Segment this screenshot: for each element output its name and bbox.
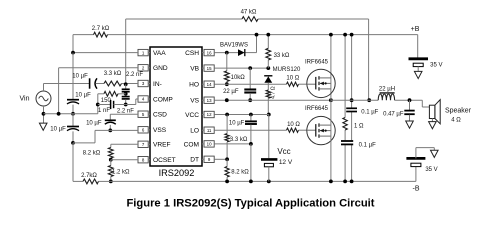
node 10uF/GND bus junction	[71, 112, 75, 116]
node bootstrap on VCC row	[267, 113, 271, 117]
capacitor 10uF VSS decoupling	[72, 114, 74, 126]
node column A on +B rail	[343, 33, 347, 37]
svg-text:2.7 kΩ: 2.7 kΩ	[92, 26, 110, 32]
wire VAA pin1 to left column	[73, 52, 138, 54]
node VCC/10uF junction	[249, 113, 253, 117]
svg-text:22 µH: 22 µH	[379, 87, 395, 93]
node VS orphan junction	[225, 98, 229, 102]
wire GND bus	[44, 94, 98, 114]
caption Figure 1	[126, 198, 374, 210]
wire VB pin15 row	[214, 67, 268, 69]
wire VCC pin12 row	[214, 114, 269, 116]
svg-text:3.3 kΩ: 3.3 kΩ	[230, 137, 248, 143]
svg-text:CSH: CSH	[185, 50, 199, 57]
node GND drop junction	[57, 112, 61, 116]
svg-text:14: 14	[207, 82, 212, 87]
speaker symbol	[429, 100, 440, 124]
node IN- junction	[124, 82, 128, 86]
node OCSET junction	[109, 158, 113, 162]
svg-text:Speaker: Speaker	[445, 108, 472, 115]
svg-text:10 Ω: 10 Ω	[286, 76, 299, 82]
svg-text:VS: VS	[190, 98, 199, 105]
node output	[408, 98, 412, 102]
resistor 10 Ohm low-side gate	[287, 128, 308, 132]
wire 10uF bottom to VSS rail	[72, 131, 74, 143]
svg-text:33 kΩ: 33 kΩ	[274, 53, 290, 59]
wire bottom rail corner up to -B cap	[415, 167, 417, 182]
svg-text:-B: -B	[413, 186, 420, 193]
svg-text:COM: COM	[184, 141, 199, 148]
svg-text:12 V: 12 V	[279, 159, 293, 166]
node N1	[124, 92, 128, 96]
resistor 1 Ohm snubber	[343, 118, 347, 131]
svg-text:1 Ω: 1 Ω	[354, 124, 364, 130]
svg-text:2.7kΩ: 2.7kΩ	[81, 173, 97, 179]
node CSD cap / VSS wire	[108, 129, 112, 133]
svg-text:Vin: Vin	[20, 95, 30, 102]
ground arrow below speaker	[429, 122, 437, 129]
svg-text:+B: +B	[411, 26, 420, 33]
svg-text:0.47 µF: 0.47 µF	[383, 111, 404, 117]
svg-text:0.1 µF: 0.1 µF	[361, 110, 378, 116]
resistor 2.7 kOhm (+B to VAA)	[94, 32, 108, 37]
node DT junction	[225, 157, 229, 161]
pin 5 CSD box and label	[138, 111, 167, 119]
wire CSD cap to VSS wire	[109, 125, 111, 130]
node 8.2k on bottom rail	[225, 180, 229, 184]
svg-text:10 µF: 10 µF	[72, 73, 88, 79]
ground arrow above -B (right)	[431, 150, 439, 157]
wire 10uF to GND bus	[72, 105, 74, 114]
svg-text:22 µF: 22 µF	[223, 89, 239, 95]
svg-text:47 kΩ: 47 kΩ	[241, 10, 257, 16]
resistor 10 kOhm (CSH sense)	[224, 53, 229, 85]
svg-text:VSS: VSS	[153, 127, 167, 134]
node 33k on +B rail	[266, 33, 270, 37]
wire bottom rail (-B / COM return)	[111, 180, 416, 182]
wire output to speaker	[422, 100, 429, 107]
resistor 33 kOhm (+B to VB)	[266, 35, 271, 69]
svg-text:CSD: CSD	[153, 112, 167, 119]
wire Vin bottom to ground	[43, 106, 45, 123]
wire Vin top to input cap	[44, 84, 90, 92]
capacitor 35V electrolytic +B	[409, 59, 429, 72]
node top FET drain on +B rail	[329, 33, 333, 37]
resistor 8.2 kOhm (VREF to OCSET)	[108, 144, 113, 159]
ground arrow below 0.47uF	[406, 121, 414, 128]
wire +B rail across top	[73, 35, 418, 58]
node GND bus / 150ohm / 1nF junction	[96, 103, 100, 107]
wire N2 to COMP pin4	[126, 99, 138, 105]
svg-text:LO: LO	[190, 128, 199, 135]
svg-text:8.2 kΩ: 8.2 kΩ	[83, 151, 101, 157]
pin 1 VAA box and label	[138, 49, 166, 57]
U1 label IRS2092	[159, 168, 195, 178]
svg-text:4.7 Ω: 4.7 Ω	[271, 86, 277, 99]
svg-text:10 µF: 10 µF	[229, 120, 245, 126]
capacitor 10uF VAA decoupling	[67, 100, 79, 104]
node VSS rail junction	[71, 141, 75, 145]
svg-text:10 µF: 10 µF	[50, 127, 66, 133]
capacitor 2.2nF (N1 to N2)	[122, 97, 130, 99]
svg-text:10 µF: 10 µF	[86, 120, 102, 126]
node column B on +B rail	[350, 33, 354, 37]
svg-text:0.1 µF: 0.1 µF	[359, 142, 376, 148]
svg-text:16: 16	[207, 50, 212, 55]
capacitor 22uF bootstrap (VB to VS)	[244, 68, 256, 100]
svg-text:1 nF: 1 nF	[98, 108, 110, 114]
svg-text:35 V: 35 V	[430, 63, 442, 69]
svg-text:VREF: VREF	[153, 142, 171, 149]
capacitor 10uF CSD	[105, 120, 116, 124]
svg-text:VB: VB	[190, 66, 199, 73]
capacitor 35V electrolytic -B	[406, 148, 434, 167]
pin 15 VB box and label	[190, 65, 214, 73]
op-amp U1 IRS2092 class-D audio driver IC body	[150, 47, 202, 166]
resistor 150 Ohm	[98, 91, 126, 96]
wire OCSET pin8	[111, 159, 138, 161]
svg-text:11: 11	[207, 128, 212, 133]
svg-text:3.3 kΩ: 3.3 kΩ	[104, 71, 122, 77]
svg-text:OCSET: OCSET	[153, 157, 176, 164]
wire top FET drain from +B rail	[330, 35, 332, 101]
wire COM down to bottom rail	[250, 144, 252, 182]
capacitor 0.47uF output filter	[404, 100, 414, 121]
wire 2.2nF to N1	[125, 92, 127, 94]
battery Vcc 12V	[261, 159, 277, 181]
capacitor 0.1uF upper (VS)	[346, 108, 357, 111]
wire 47k feedback top: from IN- node up and across to VS node	[126, 19, 369, 100]
capacitor 10uF input DC-blocking (horizontal)	[90, 78, 104, 88]
capacitor 1nF (GND node to N2)	[98, 100, 126, 109]
wire VSS pin6	[95, 130, 138, 143]
AC source Vin circle with sine	[36, 91, 51, 106]
svg-text:IRS2092: IRS2092	[159, 168, 195, 178]
capacitor 2.2nF (IN- to N1)	[125, 84, 127, 89]
node 10k on HO row	[225, 82, 229, 86]
ground arrow below Vin	[39, 123, 47, 130]
node VB/33k/MURS junction	[266, 66, 270, 70]
node bootstrap feed on bottom rail	[267, 180, 271, 184]
wire CSH pin16 row	[214, 35, 256, 53]
resistor 10 Ohm high-side gate	[287, 82, 308, 86]
pin 9 DT box and label	[190, 156, 214, 164]
pin 11 LO box and label	[190, 127, 214, 135]
pin 7 VREF box and label	[138, 141, 171, 149]
wire CSD pin5	[110, 114, 138, 120]
diode MURS120 bootstrap	[264, 68, 272, 83]
svg-text:COMP: COMP	[153, 96, 173, 103]
node 47k feedback on VS row	[367, 98, 371, 102]
wire COM pin10 row	[214, 143, 251, 145]
svg-text:IN-: IN-	[153, 81, 162, 88]
node Vin- on GND bus	[42, 112, 46, 116]
svg-text:2.2 nF: 2.2 nF	[126, 72, 143, 78]
pin 14 HO box and label	[189, 81, 214, 89]
svg-text:VAA: VAA	[153, 50, 166, 57]
svg-text:13: 13	[207, 98, 212, 103]
pin 4 COMP box and label	[138, 96, 173, 104]
label 4.7 Ohm (rotated)	[271, 86, 277, 99]
resistor 2.7 kOhm (VSS col to bottom rail)	[73, 143, 111, 184]
svg-text:GND: GND	[153, 65, 168, 72]
pin 6 VSS box and label	[138, 127, 167, 135]
wire snubber column B (0.1uF branch)	[351, 35, 353, 182]
wire VS pin13 row to switch node	[214, 99, 331, 101]
node VAA junction	[71, 51, 75, 55]
resistor 1.2 kOhm (OCSET to bottom rail)	[108, 160, 113, 182]
svg-text:35 V: 35 V	[425, 167, 437, 173]
ground arrow below +B cap	[414, 71, 422, 78]
svg-text:MURS120: MURS120	[273, 67, 301, 73]
resistor 47 kOhm feedback	[242, 17, 258, 22]
transistor Q1 high-side IRF6645	[307, 69, 335, 97]
node COM on bottom rail	[249, 180, 253, 184]
node bottom FET source on bottom rail	[329, 180, 333, 184]
svg-text:12: 12	[207, 112, 212, 117]
svg-text:4 Ω: 4 Ω	[451, 118, 461, 124]
resistor 8.2 kOhm (DT to rail)	[225, 159, 229, 181]
svg-text:10kΩ: 10kΩ	[231, 75, 246, 81]
pin 10 COM box and label	[184, 141, 215, 149]
svg-text:Vcc: Vcc	[277, 147, 290, 156]
transistor Q2 low-side IRF6645	[307, 116, 335, 144]
svg-text:8.2 kΩ: 8.2 kΩ	[231, 170, 249, 176]
wire LO pin11 to gate resistor	[214, 129, 286, 131]
pin 16 CSH box and label	[185, 49, 214, 57]
svg-text:1.2 kΩ: 1.2 kΩ	[112, 169, 130, 175]
diode BAV19WS	[238, 49, 245, 56]
node column B on VS row	[350, 98, 354, 102]
node VCC/3.3k junction	[225, 113, 229, 117]
wire bottom FET drain/source column	[330, 100, 332, 181]
svg-text:10 Ω: 10 Ω	[287, 122, 300, 128]
wire VCC row to 12V battery	[268, 115, 270, 159]
svg-text:2.2 nF: 2.2 nF	[117, 108, 134, 114]
wire GND pin2 to left drop	[59, 68, 138, 114]
capacitor 0.1uF lower (shared plates)	[341, 141, 353, 144]
wire VSS rail	[73, 142, 95, 144]
wire inductor to output node	[395, 99, 423, 101]
svg-text:10 µF: 10 µF	[75, 92, 91, 98]
pin 3 IN- box and label	[138, 80, 162, 88]
svg-text:IRF6645: IRF6645	[305, 106, 329, 112]
node bottom-left rail junction	[109, 180, 113, 184]
pin 12 VCC box and label	[185, 111, 214, 119]
wire snubber column A (1 Ohm branch)	[344, 35, 346, 182]
node switch node at FETs	[329, 98, 333, 102]
wire HO pin14 to gate resistor	[214, 83, 286, 85]
node CSH/10k junction	[225, 51, 229, 55]
wire VS row to inductor	[331, 99, 378, 101]
pin 13 VS box and label	[190, 97, 214, 105]
svg-text:IRF6645: IRF6645	[305, 60, 329, 66]
node column B on bottom rail	[350, 180, 354, 184]
pin 8 OCSET box and label	[138, 157, 176, 165]
wire DT pin9 row	[214, 158, 227, 160]
pin 2 GND box and label	[138, 65, 168, 73]
resistor 3.3 kOhm (VCC to DT)	[225, 115, 229, 160]
node COM/10uF junction	[249, 142, 253, 146]
inductor 22uH output filter	[378, 93, 394, 100]
node CSH corner on +B rail	[255, 33, 259, 37]
node 22uF on VS row	[248, 98, 252, 102]
svg-text:Figure 1 IRS2092(S) Typical Ap: Figure 1 IRS2092(S) Typical Application …	[126, 198, 374, 210]
node VB/22uF junction	[248, 66, 252, 70]
svg-text:HO: HO	[189, 82, 199, 89]
svg-text:DT: DT	[190, 157, 199, 164]
svg-text:VCC: VCC	[185, 112, 199, 119]
resistor 4.7 Ohm bootstrap series	[266, 83, 270, 115]
wire VREF pin7	[111, 143, 138, 145]
resistor 3.3 kOhm input	[104, 81, 138, 86]
node column A on bottom rail	[343, 180, 347, 184]
capacitor 10uF VCC decoupling	[245, 115, 257, 144]
svg-text:15: 15	[207, 66, 212, 71]
svg-text:10: 10	[207, 142, 212, 147]
node N2	[124, 103, 128, 107]
svg-text:BAV19WS: BAV19WS	[220, 43, 248, 49]
wire VAA column down to 10uF	[72, 53, 74, 100]
